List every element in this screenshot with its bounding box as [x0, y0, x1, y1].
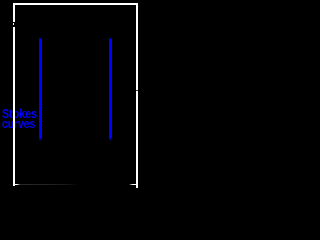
axes frame: bottom spine (bright near corners, faint in middle): [13, 184, 138, 185]
tick dash on left spine: [13, 23, 14, 25]
axes frame: top spine: [13, 3, 138, 5]
label: "Stokes curves" line 2: [2, 117, 35, 131]
break in left spine (gap): [13, 22, 16, 27]
Stokes curve 1 top tip: [39, 37, 41, 40]
Stokes curve 2 top tip: [109, 37, 111, 40]
Stokes curve 2 bottom tip: [109, 138, 111, 141]
axes frame: right spine: [136, 3, 138, 188]
axes frame: left spine: [13, 3, 15, 186]
break in right spine (dim patch): [136, 90, 138, 91]
Stokes curve 2 (right vertical blue line): [109, 39, 112, 137]
Stokes curve 1 bottom tip: [39, 138, 41, 141]
label: "Stokes curves" line 1: [2, 107, 37, 121]
Stokes curve 1 (left vertical blue line): [39, 39, 43, 137]
